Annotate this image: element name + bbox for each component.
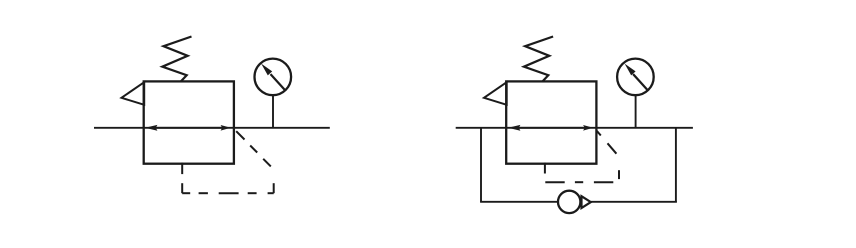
wire: gauge stem (left) xyxy=(272,95,274,128)
flow path double arrow (left regulator) xyxy=(145,125,231,131)
check valve circle xyxy=(558,191,580,213)
pilot line dashed diagonal (left regulator) xyxy=(236,131,271,166)
pilot line dashed bottom horizontal (right regulator) xyxy=(545,181,613,183)
wire: bypass right vertical (right regulator) xyxy=(675,128,677,202)
regulator body box (right) xyxy=(506,81,596,163)
relief vent triangle (left regulator) xyxy=(122,82,145,105)
pilot line dashed bottom horizontal (left regulator) xyxy=(182,192,274,194)
pilot line dashed vertical right (left regulator) xyxy=(273,183,275,193)
pressure gauge dial (right) xyxy=(617,59,654,96)
check valve triangle xyxy=(582,196,591,208)
wire: bypass bottom line right segment xyxy=(591,201,677,203)
spring (right regulator) xyxy=(524,37,553,82)
relief vent triangle (right regulator) xyxy=(484,82,507,105)
wire: main flow line (right regulator) xyxy=(456,127,693,129)
gauge needle (right) xyxy=(625,64,648,91)
pressure gauge dial (left) xyxy=(254,59,291,96)
pilot stub from regulator bottom (left) xyxy=(181,163,183,175)
pilot line dashed diagonal (right regulator) xyxy=(597,131,617,154)
flow path double arrow (right regulator) xyxy=(508,125,593,131)
gauge needle (left) xyxy=(261,64,285,91)
pilot stub from regulator bottom (right) xyxy=(544,163,546,174)
pilot line dashed vertical right (right regulator) xyxy=(618,170,620,179)
spring (left regulator) xyxy=(162,37,191,82)
pilot line dashed vertical left (left regulator) xyxy=(181,183,183,193)
wire: main flow line (left regulator) xyxy=(94,127,330,129)
wire: gauge stem (right) xyxy=(635,95,637,128)
regulator body box (left) xyxy=(144,81,234,163)
wire: bypass left vertical (right regulator) xyxy=(480,128,482,202)
wire: bypass bottom line left segment xyxy=(480,201,557,203)
